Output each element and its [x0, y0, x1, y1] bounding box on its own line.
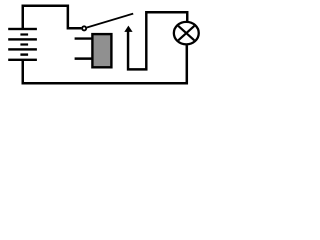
armature arrow head	[124, 26, 132, 32]
switch S1 blade	[87, 14, 133, 28]
battery BT1 plate short 3	[20, 53, 28, 55]
wire battery bottom / bottom rail to lamp	[23, 45, 187, 83]
switch S1 pivot	[82, 26, 86, 30]
lamp L1 cross stroke 1	[178, 26, 194, 40]
relay coil lead lower	[75, 57, 93, 60]
battery BT1 plate short 2	[20, 43, 28, 45]
relay coil K1 core	[92, 34, 111, 67]
battery BT1 plate short 1	[20, 33, 28, 35]
relay coil lead upper	[75, 37, 93, 39]
wire battery top to switch pivot	[23, 6, 82, 29]
battery BT1 plate long 1	[8, 28, 37, 30]
battery BT1 plate long 4	[8, 59, 37, 61]
lamp L1 bulb	[174, 22, 199, 45]
lamp L1 cross stroke 2	[178, 26, 194, 40]
battery BT1 plate long 3	[8, 48, 37, 50]
armature wire and contact to lamp	[128, 12, 187, 69]
battery BT1 plate long 2	[8, 38, 37, 40]
